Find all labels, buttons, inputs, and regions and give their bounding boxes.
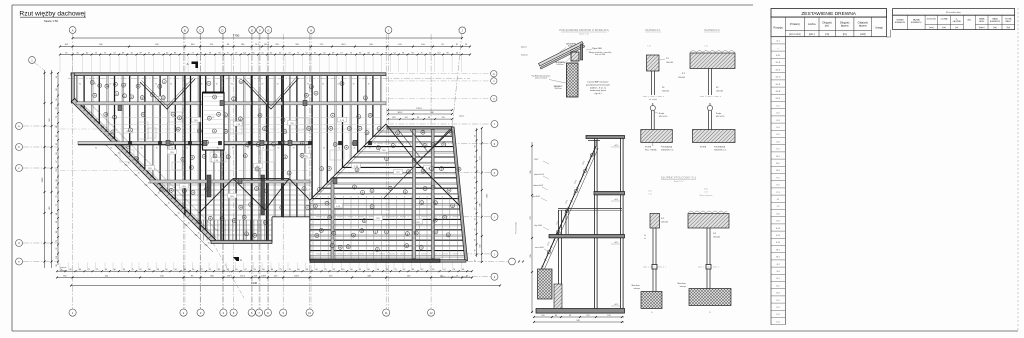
svg-text:90: 90 bbox=[338, 148, 340, 150]
svg-text:11: 11 bbox=[353, 235, 355, 237]
right section top edge band bbox=[387, 127, 452, 130]
svg-text:[mm]: [mm] bbox=[929, 27, 934, 29]
svg-text:60: 60 bbox=[86, 52, 88, 54]
svg-text:ELEMENTU: ELEMENTU bbox=[911, 22, 922, 24]
svg-text:110: 110 bbox=[148, 269, 151, 271]
svg-text:90: 90 bbox=[186, 148, 188, 150]
svg-text:64: 64 bbox=[200, 52, 202, 54]
svg-text:25x25cm: 25x25cm bbox=[554, 88, 562, 90]
svg-text:18: 18 bbox=[281, 207, 283, 209]
hip eave diagonal band (hatched) bbox=[71, 98, 215, 243]
svg-text:74: 74 bbox=[56, 170, 58, 172]
svg-text:86: 86 bbox=[56, 187, 58, 189]
svg-text:WG 1. PIĘTRA: WG 1. PIĘTRA bbox=[645, 148, 657, 151]
svg-text:C: C bbox=[199, 28, 201, 32]
svg-text:K1-D: K1-D bbox=[776, 77, 781, 79]
svg-text:28: 28 bbox=[458, 169, 460, 171]
svg-text:90: 90 bbox=[110, 84, 112, 86]
svg-text:74: 74 bbox=[350, 52, 352, 54]
top dimension chain overall 7790 bbox=[73, 37, 462, 39]
svg-text:osł. słupka: osł. słupka bbox=[649, 99, 657, 101]
svg-text:+6.15: +6.15 bbox=[614, 242, 618, 244]
light partition room rectangles bbox=[138, 122, 148, 139]
svg-text:[szt.]: [szt.] bbox=[809, 32, 815, 36]
svg-text:90: 90 bbox=[338, 84, 340, 86]
left grid bubbles bbox=[16, 123, 23, 130]
right section bottom eave band (dark hatched) bbox=[310, 259, 440, 262]
svg-text:141: 141 bbox=[212, 117, 215, 119]
cross-section floor slabs bbox=[586, 136, 625, 139]
svg-text:ŁĄCZNIE: ŁĄCZNIE bbox=[953, 20, 962, 23]
svg-text:23: 23 bbox=[265, 222, 267, 224]
svg-text:(typ ok.): (typ ok.) bbox=[595, 92, 602, 95]
svg-text:28: 28 bbox=[209, 218, 211, 220]
detail B1: beam band over post bbox=[690, 53, 735, 69]
svg-text:22: 22 bbox=[363, 220, 365, 222]
svg-text:90: 90 bbox=[262, 148, 264, 150]
svg-text:90: 90 bbox=[262, 84, 264, 86]
svg-text:STOPA: STOPA bbox=[700, 146, 707, 149]
svg-text:90: 90 bbox=[278, 148, 280, 150]
svg-text:15: 15 bbox=[151, 94, 153, 96]
svg-text:17: 17 bbox=[208, 118, 210, 120]
detail A2: strut node bbox=[652, 103, 654, 106]
svg-text:14: 14 bbox=[240, 81, 242, 83]
svg-text:17: 17 bbox=[354, 187, 356, 189]
svg-text:75: 75 bbox=[227, 52, 229, 54]
svg-text:PŁATEW P-2: PŁATEW P-2 bbox=[704, 28, 720, 32]
svg-text:90: 90 bbox=[474, 218, 476, 220]
svg-text:62: 62 bbox=[323, 52, 325, 54]
svg-text:28: 28 bbox=[448, 190, 450, 192]
svg-text:4: 4 bbox=[258, 144, 259, 146]
svg-text:K2-B: K2-B bbox=[776, 91, 781, 93]
svg-text:19: 19 bbox=[129, 130, 131, 132]
svg-text:PODKŁADKA: PODKŁADKA bbox=[714, 146, 726, 149]
svg-text:płatew 14x14: płatew 14x14 bbox=[534, 173, 544, 176]
jack rafter diagonals in right corner triangle bbox=[398, 130, 420, 158]
svg-text:22: 22 bbox=[303, 188, 305, 190]
svg-text:24: 24 bbox=[284, 131, 286, 133]
svg-text:110: 110 bbox=[437, 52, 440, 54]
svg-text:B: B bbox=[184, 28, 186, 32]
svg-text:58: 58 bbox=[56, 221, 58, 223]
svg-text:24: 24 bbox=[240, 207, 242, 209]
svg-text:MASY: MASY bbox=[1006, 20, 1012, 23]
svg-text:płatew: płatew bbox=[521, 46, 527, 49]
svg-text:250.5: 250.5 bbox=[534, 159, 538, 161]
bottom edge band mid section bbox=[211, 241, 272, 244]
svg-text:90: 90 bbox=[462, 269, 464, 271]
svg-text:5: 5 bbox=[431, 168, 432, 170]
svg-text:60: 60 bbox=[56, 99, 58, 101]
steel table left edge below bbox=[890, 30, 892, 37]
svg-text:krokiew: krokiew bbox=[521, 55, 528, 57]
svg-text:wieńcu co 150cm: wieńcu co 150cm bbox=[535, 78, 548, 80]
svg-text:90: 90 bbox=[232, 148, 234, 150]
left eaves wall-plate band bbox=[71, 73, 74, 103]
svg-text:A: A bbox=[240, 258, 242, 262]
svg-text:2: 2 bbox=[124, 96, 125, 98]
svg-text:90: 90 bbox=[474, 187, 476, 189]
svg-text:90: 90 bbox=[368, 84, 370, 86]
svg-text:74: 74 bbox=[95, 52, 97, 54]
cross-section: sloped rafter double line bbox=[540, 146, 596, 272]
svg-text:24: 24 bbox=[127, 146, 129, 148]
svg-text:9: 9 bbox=[225, 115, 226, 117]
svg-text:52: 52 bbox=[56, 126, 58, 128]
svg-text:73: 73 bbox=[279, 269, 281, 271]
svg-text:słup 14x14: słup 14x14 bbox=[534, 225, 542, 227]
svg-text:21: 21 bbox=[112, 132, 114, 134]
svg-text:10: 10 bbox=[447, 235, 449, 237]
svg-text:55: 55 bbox=[165, 269, 167, 271]
cross-section wall columns bbox=[594, 138, 596, 312]
svg-text:20: 20 bbox=[227, 157, 229, 159]
dark posts on purlin bbox=[188, 141, 191, 145]
svg-text:60: 60 bbox=[279, 52, 281, 54]
svg-text:73: 73 bbox=[376, 52, 378, 54]
svg-text:1:10: 1:10 bbox=[648, 194, 651, 196]
svg-text:13: 13 bbox=[105, 114, 107, 116]
svg-text:88: 88 bbox=[428, 117, 430, 119]
svg-text:80: 80 bbox=[555, 315, 557, 317]
svg-text:83: 83 bbox=[56, 135, 58, 137]
svg-text:2: 2 bbox=[233, 99, 234, 101]
svg-text:67: 67 bbox=[56, 161, 58, 163]
svg-text:17: 17 bbox=[415, 233, 417, 235]
svg-text:67: 67 bbox=[148, 52, 150, 54]
svg-text:62: 62 bbox=[421, 269, 423, 271]
svg-text:90: 90 bbox=[474, 135, 476, 137]
svg-text:90: 90 bbox=[155, 84, 157, 86]
bottom overall dimension 7146 bbox=[71, 285, 500, 287]
svg-text:86: 86 bbox=[271, 269, 273, 271]
svg-text:90: 90 bbox=[307, 84, 309, 86]
svg-text:2x: 2x bbox=[644, 235, 646, 237]
svg-text:90: 90 bbox=[216, 84, 218, 86]
svg-text:86: 86 bbox=[174, 52, 176, 54]
svg-text:295: 295 bbox=[530, 254, 532, 257]
svg-text:1:10: 1:10 bbox=[647, 46, 651, 48]
svg-text:90: 90 bbox=[474, 156, 476, 158]
faint partition lines left section bbox=[100, 117, 380, 119]
svg-text:90: 90 bbox=[359, 52, 361, 54]
svg-text:90: 90 bbox=[110, 148, 112, 150]
svg-text:13: 13 bbox=[214, 131, 216, 133]
svg-text:13: 13 bbox=[413, 160, 415, 162]
svg-text:Liczba: Liczba bbox=[808, 22, 816, 26]
svg-text:15: 15 bbox=[329, 217, 331, 219]
svg-text:83: 83 bbox=[412, 269, 414, 271]
right section vertical purlin x414 bbox=[413, 130, 416, 259]
svg-text:27: 27 bbox=[191, 167, 193, 169]
svg-text:130: 130 bbox=[442, 117, 445, 119]
svg-text:9: 9 bbox=[138, 86, 139, 88]
svg-text:96: 96 bbox=[412, 52, 414, 54]
right section right eave band bbox=[451, 127, 467, 261]
detail B3: post to slab wide bbox=[688, 214, 729, 229]
svg-text:11: 11 bbox=[443, 144, 445, 146]
svg-text:23: 23 bbox=[302, 143, 304, 145]
svg-text:5: 5 bbox=[390, 188, 391, 190]
svg-text:73: 73 bbox=[56, 196, 58, 198]
svg-text:łączna: łączna bbox=[841, 24, 849, 28]
svg-text:23: 23 bbox=[369, 115, 371, 117]
svg-text:64: 64 bbox=[105, 269, 107, 271]
svg-text:365.1: 365.1 bbox=[397, 112, 403, 114]
timber table header grid bbox=[771, 17, 887, 37]
svg-text:22: 22 bbox=[333, 269, 335, 271]
svg-text:28: 28 bbox=[199, 131, 201, 133]
svg-text:75: 75 bbox=[56, 240, 58, 242]
svg-text:160x160: 160x160 bbox=[662, 91, 669, 93]
svg-text:74: 74 bbox=[386, 269, 388, 271]
svg-text:1: 1 bbox=[433, 187, 434, 189]
svg-text:160x160: 160x160 bbox=[666, 62, 673, 64]
svg-text:90: 90 bbox=[447, 52, 449, 54]
svg-text:86: 86 bbox=[417, 117, 419, 119]
svg-text:m: m bbox=[493, 73, 495, 76]
diagonal dim along hip eave bbox=[103, 142, 213, 252]
svg-text:90: 90 bbox=[322, 84, 324, 86]
svg-text:71: 71 bbox=[56, 204, 58, 206]
right section valley and hips bbox=[386, 124, 417, 163]
valley braces V1 near top bbox=[140, 79, 195, 109]
svg-text:90: 90 bbox=[474, 249, 476, 251]
svg-text:każde ramię złącza: każde ramię złącza bbox=[590, 89, 607, 92]
svg-text:90: 90 bbox=[308, 148, 310, 150]
svg-text:14x14cm: 14x14cm bbox=[556, 64, 564, 66]
svg-text:DŁUGOŚĆ: DŁUGOŚĆ bbox=[927, 17, 937, 20]
svg-text:26: 26 bbox=[284, 157, 286, 159]
svg-text:90: 90 bbox=[141, 148, 143, 150]
svg-text:90: 90 bbox=[56, 265, 58, 267]
svg-text:25: 25 bbox=[341, 83, 343, 85]
dense joist strip above mid bottom edge bbox=[204, 220, 272, 241]
svg-text:62: 62 bbox=[56, 143, 58, 145]
svg-text:4x40mm - 8 szt. na: 4x40mm - 8 szt. na bbox=[590, 86, 607, 89]
right top dims above right section bbox=[388, 109, 452, 111]
svg-text:74: 74 bbox=[254, 269, 256, 271]
svg-text:83: 83 bbox=[122, 52, 124, 54]
svg-text:[m]: [m] bbox=[955, 27, 958, 29]
svg-text:90: 90 bbox=[156, 148, 158, 150]
svg-text:25: 25 bbox=[424, 188, 426, 190]
svg-text:110: 110 bbox=[341, 269, 344, 271]
svg-text:Pozycja: Pozycja bbox=[774, 26, 784, 30]
svg-text:75: 75 bbox=[297, 52, 299, 54]
svg-text:16: 16 bbox=[422, 132, 424, 134]
svg-text:55: 55 bbox=[456, 52, 458, 54]
svg-text:JEDN.: JEDN. bbox=[979, 21, 985, 23]
svg-text:75: 75 bbox=[131, 269, 133, 271]
svg-text:17: 17 bbox=[348, 128, 350, 130]
svg-text:5: 5 bbox=[421, 202, 422, 204]
svg-text:10: 10 bbox=[171, 143, 173, 145]
top eaves wall-plate band bbox=[71, 73, 386, 76]
svg-text:4szt. na 1MB: 4szt. na 1MB bbox=[595, 53, 606, 56]
svg-text:10: 10 bbox=[452, 205, 454, 207]
right grid bubbles upper bbox=[491, 71, 497, 77]
svg-text:74: 74 bbox=[60, 269, 62, 271]
svg-text:[m3]: [m3] bbox=[860, 32, 865, 36]
svg-text:71: 71 bbox=[96, 269, 98, 271]
svg-text:110: 110 bbox=[56, 256, 58, 259]
svg-text:H: H bbox=[310, 28, 312, 32]
svg-text:90: 90 bbox=[474, 229, 476, 231]
svg-text:18: 18 bbox=[266, 191, 268, 193]
cross-section node circles on slope bbox=[547, 250, 550, 253]
eaves detail OSB arrows bbox=[570, 47, 578, 51]
svg-text:90: 90 bbox=[95, 148, 97, 150]
svg-text:11: 11 bbox=[311, 87, 313, 89]
svg-text:Przekrój B-B: Przekrój B-B bbox=[516, 222, 518, 234]
svg-text:16: 16 bbox=[214, 97, 216, 99]
svg-text:Mata tłum.: Mata tłum. bbox=[632, 284, 641, 287]
svg-text:55: 55 bbox=[262, 52, 264, 54]
steel table title bar bbox=[893, 9, 1015, 16]
svg-text:27: 27 bbox=[307, 207, 309, 209]
svg-text:18: 18 bbox=[264, 206, 266, 208]
svg-text:A: A bbox=[187, 62, 189, 66]
svg-text:90: 90 bbox=[201, 84, 203, 86]
svg-text:GRUB.MIN 1 cm: GRUB.MIN 1 cm bbox=[714, 149, 727, 151]
svg-text:90: 90 bbox=[217, 148, 219, 150]
svg-text:PODKŁADKA: PODKŁADKA bbox=[661, 146, 673, 149]
svg-text:58: 58 bbox=[402, 52, 404, 54]
svg-text:73: 73 bbox=[183, 52, 185, 54]
svg-text:Mata tłum.: Mata tłum. bbox=[678, 282, 687, 285]
svg-text:1:10: 1:10 bbox=[704, 46, 708, 48]
svg-text:90: 90 bbox=[474, 260, 476, 262]
svg-text:19: 19 bbox=[106, 86, 108, 88]
left section ceiling joists lower band bbox=[152, 185, 310, 240]
svg-text:28: 28 bbox=[328, 168, 330, 170]
svg-text:ZESTAWIENIE DREWNA: ZESTAWIENIE DREWNA bbox=[801, 11, 856, 17]
svg-text:15: 15 bbox=[160, 189, 162, 191]
cross-section batten ticks on slope bbox=[541, 266, 543, 267]
svg-text:25: 25 bbox=[301, 155, 303, 157]
svg-text:16: 16 bbox=[346, 147, 348, 149]
cross-section collar tie jetka bbox=[558, 208, 622, 210]
svg-text:22: 22 bbox=[429, 52, 431, 54]
interior wall band x262 bbox=[261, 175, 265, 215]
svg-text:Płyta OSB: Płyta OSB bbox=[592, 47, 602, 50]
svg-text:E: E bbox=[251, 28, 253, 32]
svg-text:90: 90 bbox=[140, 84, 142, 86]
svg-text:5: 5 bbox=[319, 189, 320, 191]
svg-text:86: 86 bbox=[79, 269, 81, 271]
hip rafter inner parallel diagonals bbox=[79, 104, 216, 241]
svg-text:A: A bbox=[72, 28, 74, 32]
svg-text:Przekrój: Przekrój bbox=[790, 22, 800, 26]
svg-text:23: 23 bbox=[142, 114, 144, 116]
svg-text:ELEMENTU: ELEMENTU bbox=[990, 21, 1001, 23]
purlin band y181 bbox=[150, 180, 310, 183]
svg-text:71: 71 bbox=[192, 52, 194, 54]
detail A1: post with cap bbox=[647, 55, 660, 71]
svg-text:[kg]: [kg] bbox=[1007, 27, 1011, 29]
svg-text:67: 67 bbox=[341, 52, 343, 54]
svg-text:90: 90 bbox=[79, 84, 81, 86]
svg-text:105: 105 bbox=[541, 315, 544, 317]
svg-text:160x160: 160x160 bbox=[713, 236, 720, 238]
svg-text:74: 74 bbox=[288, 52, 290, 54]
svg-text:52: 52 bbox=[403, 269, 405, 271]
svg-text:96: 96 bbox=[123, 269, 125, 271]
small posts squares on plan bbox=[118, 105, 122, 110]
svg-text:[m]: [m] bbox=[825, 32, 829, 36]
svg-text:90: 90 bbox=[292, 84, 294, 86]
svg-text:98.5: 98.5 bbox=[392, 117, 396, 119]
svg-text:24: 24 bbox=[347, 246, 349, 248]
svg-text:19: 19 bbox=[316, 235, 318, 237]
svg-text:20: 20 bbox=[331, 245, 333, 247]
svg-text:90: 90 bbox=[277, 84, 279, 86]
svg-text:270: 270 bbox=[530, 216, 532, 219]
detail A3: post to floor bbox=[650, 214, 660, 229]
svg-text:25: 25 bbox=[240, 119, 242, 121]
svg-text:58: 58 bbox=[209, 52, 211, 54]
svg-text:15: 15 bbox=[386, 232, 388, 234]
svg-text:52: 52 bbox=[114, 52, 116, 54]
svg-text:86: 86 bbox=[368, 52, 370, 54]
cross-section eaves wall hatched bbox=[538, 269, 553, 299]
svg-text:łączna: łączna bbox=[859, 24, 867, 28]
svg-text:+6.15: +6.15 bbox=[614, 145, 618, 147]
svg-text:90: 90 bbox=[174, 269, 176, 271]
svg-text:W liczniku obm.: W liczniku obm. bbox=[946, 12, 962, 14]
svg-text:13: 13 bbox=[450, 132, 452, 134]
svg-text:16: 16 bbox=[135, 158, 137, 160]
svg-text:16: 16 bbox=[308, 128, 310, 130]
bottom grid bubbles bbox=[69, 309, 76, 316]
svg-text:7146: 7146 bbox=[251, 281, 258, 285]
hip peak left diagonals bbox=[199, 179, 233, 213]
svg-text:75: 75 bbox=[394, 269, 396, 271]
svg-text:64: 64 bbox=[394, 52, 396, 54]
extension lines from roof bottom to dims bbox=[59, 263, 61, 271]
timber table position column rows bbox=[771, 43, 785, 45]
right section vertical purlin x433 bbox=[432, 130, 435, 259]
svg-text:67: 67 bbox=[244, 269, 246, 271]
svg-text:gwoździami pierścieniowymi: gwoździami pierścieniowymi bbox=[586, 83, 610, 86]
svg-text:182: 182 bbox=[480, 244, 482, 247]
svg-text:62: 62 bbox=[131, 52, 133, 54]
svg-text:[kg]: [kg] bbox=[993, 27, 997, 29]
svg-text:16: 16 bbox=[183, 191, 185, 193]
svg-text:74: 74 bbox=[453, 269, 455, 271]
svg-text:23: 23 bbox=[256, 188, 258, 190]
svg-text:28: 28 bbox=[191, 157, 193, 159]
svg-text:90: 90 bbox=[166, 52, 168, 54]
svg-text:90: 90 bbox=[56, 180, 58, 182]
svg-text:69: 69 bbox=[56, 153, 58, 155]
svg-text:26: 26 bbox=[407, 172, 409, 174]
page border frame bbox=[12, 4, 753, 6]
svg-text:74: 74 bbox=[158, 52, 160, 54]
wall below (cross hatched) bbox=[567, 63, 579, 97]
svg-text:305: 305 bbox=[530, 170, 532, 173]
svg-text:58: 58 bbox=[306, 269, 308, 271]
svg-text:64: 64 bbox=[56, 213, 58, 215]
extension lines from roof to dims bbox=[59, 56, 61, 72]
svg-text:90: 90 bbox=[474, 177, 476, 179]
svg-text:[szt]: [szt] bbox=[942, 26, 946, 29]
svg-text:90: 90 bbox=[126, 148, 128, 150]
svg-text:75: 75 bbox=[200, 269, 202, 271]
